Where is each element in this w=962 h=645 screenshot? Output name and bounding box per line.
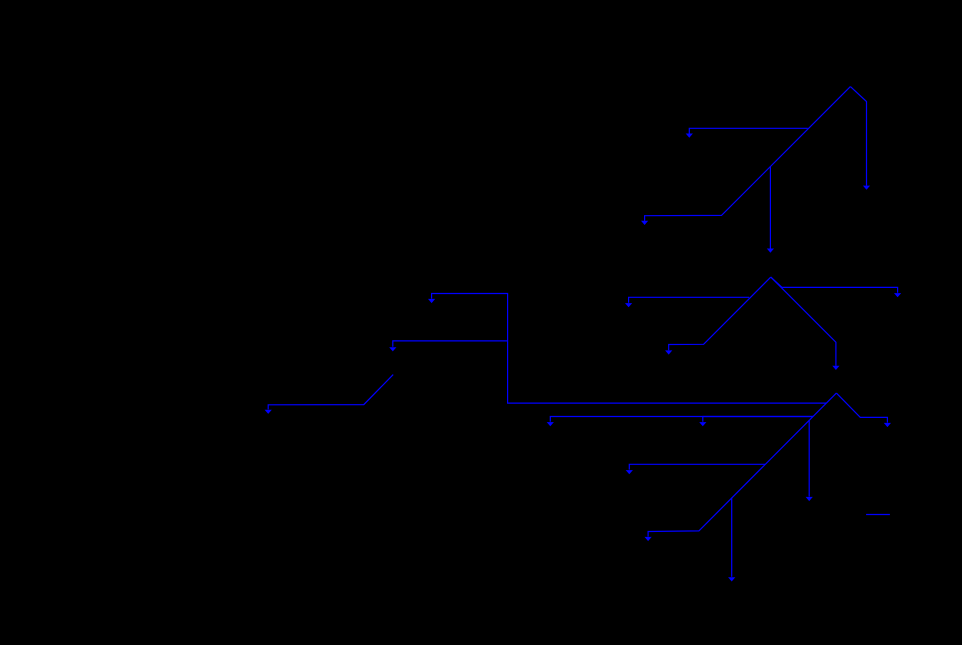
edge E15: overlapping horizontal at y=416.5, arrow down at x=703 — [699, 417, 813, 427]
edge E4: vertical drop from diagonal at x=770, arrow down — [767, 167, 774, 253]
edge E10: short horizontal at y=341 to vertical, arrow down at left end — [389, 341, 507, 352]
edge E18: vertical off third-peak diagonal at x=731.7, arrow down — [728, 498, 735, 582]
edge E12: third peak long diagonal down-left, horizontal, arrow down — [645, 393, 837, 541]
edge E3: horizontal branch off diagonal at y=128, arrow down at left end — [686, 128, 808, 137]
edge E8: horizontal branch off second-peak left diagonal at y=297, arrow down — [625, 297, 749, 307]
edge E9: arrow at left, horizontal, long vertical at x=507, long horizontal to third peak diagonal — [428, 294, 826, 404]
edge E14: long horizontal off third-peak diagonal at y=416.5, arrow down at far left — [547, 417, 813, 427]
edge E1: top peak to right bend, vertical arrow down — [850, 87, 870, 190]
edge E13: third peak right bend, horizontal, arrow down — [836, 393, 891, 427]
edge E7: second peak diagonal down-left, horizontal, arrow down — [665, 277, 771, 355]
edge E16: vertical off third-peak diagonal at x=809, arrow down — [806, 420, 813, 501]
edge E6: second peak long diagonal down-right, vertical, arrow down — [771, 277, 840, 370]
short isolated horizontal rule — [866, 514, 890, 516]
edge E5: second peak right bend, long horizontal right, arrow down — [771, 277, 901, 297]
edge E17: horizontal at y=464 to diagonal, arrow down at left end — [626, 464, 766, 474]
edge E11: diagonal down-left to horizontal, arrow down at left end — [265, 375, 394, 414]
edge E2: long diagonal from top peak down-left, then horizontal, arrow down — [641, 87, 850, 225]
